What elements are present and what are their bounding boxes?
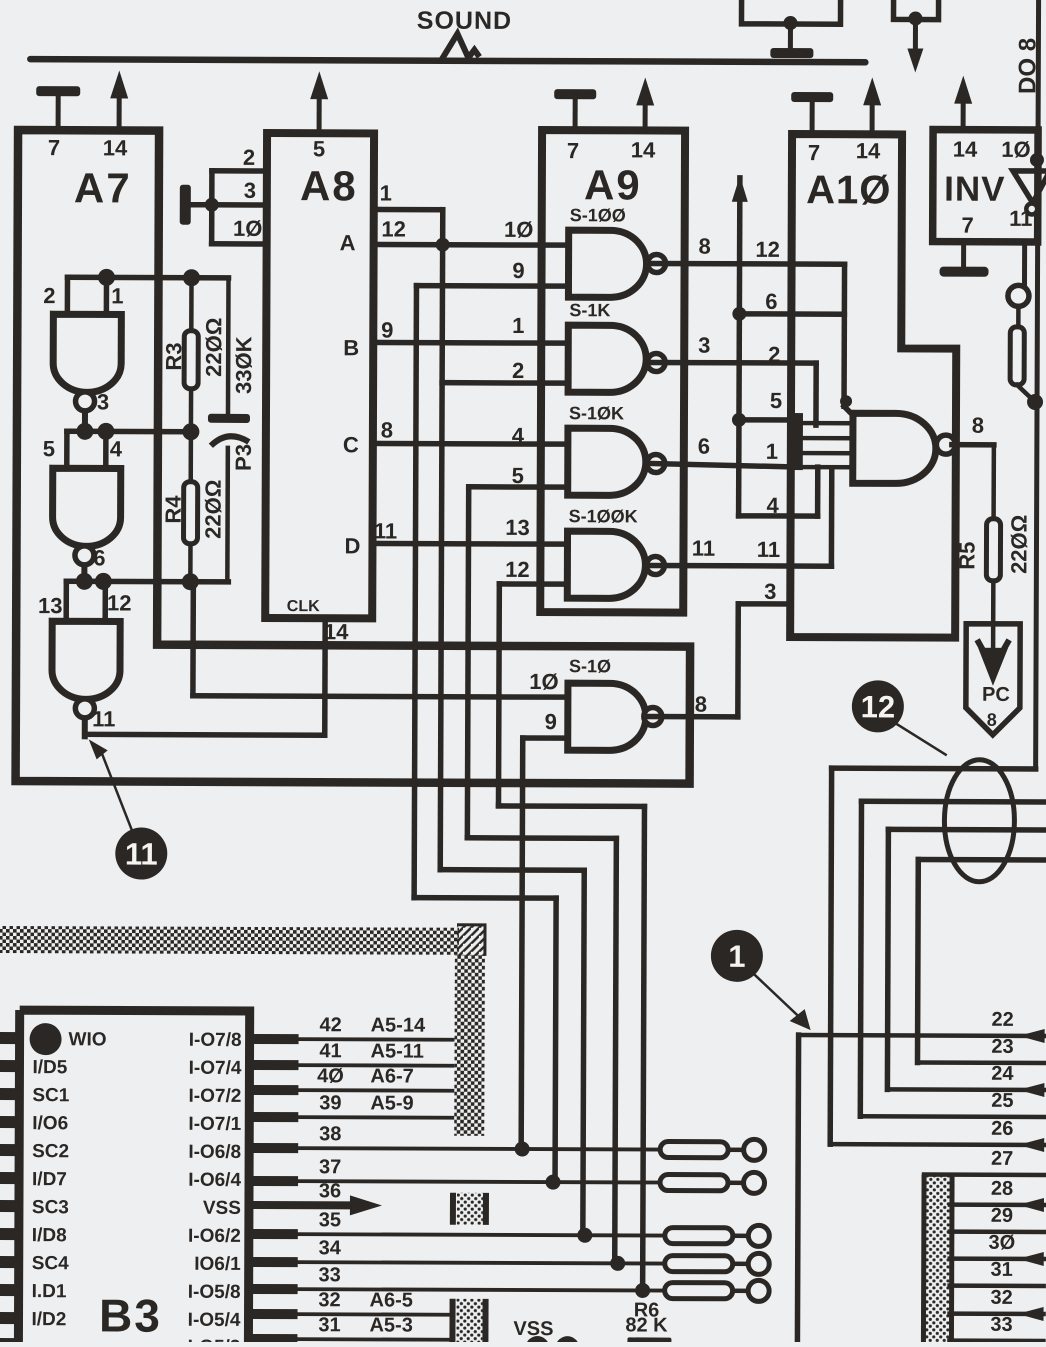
svg-text:11: 11 xyxy=(692,536,715,561)
svg-text:I-O7/1: I-O7/1 xyxy=(188,1114,241,1135)
svg-text:8: 8 xyxy=(698,234,710,259)
svg-text:9: 9 xyxy=(545,709,557,734)
svg-text:I-O5/8: I-O5/8 xyxy=(188,1282,241,1303)
svg-text:A5-9: A5-9 xyxy=(370,1092,413,1114)
svg-text:14: 14 xyxy=(103,135,128,160)
svg-text:3Ø: 3Ø xyxy=(988,1232,1015,1254)
svg-text:5: 5 xyxy=(512,463,524,488)
svg-text:VSS: VSS xyxy=(203,1198,241,1219)
svg-text:4: 4 xyxy=(512,423,525,448)
svg-text:INV: INV xyxy=(944,170,1006,209)
svg-text:CLK: CLK xyxy=(287,598,320,615)
svg-text:1Ø: 1Ø xyxy=(529,669,558,694)
svg-text:I-O7/4: I-O7/4 xyxy=(189,1058,242,1079)
svg-text:22ØΩ: 22ØΩ xyxy=(1006,515,1031,574)
svg-text:1: 1 xyxy=(111,283,123,308)
svg-text:5: 5 xyxy=(313,136,325,161)
svg-text:31: 31 xyxy=(318,1314,340,1336)
svg-text:2: 2 xyxy=(43,283,55,308)
svg-text:SC3: SC3 xyxy=(32,1197,69,1218)
svg-text:6: 6 xyxy=(698,434,710,459)
svg-text:I/D5: I/D5 xyxy=(32,1057,67,1078)
svg-text:33: 33 xyxy=(319,1264,341,1286)
svg-text:A5-11: A5-11 xyxy=(370,1040,423,1062)
svg-text:I-O6/8: I-O6/8 xyxy=(188,1142,241,1163)
svg-text:I-O7/2: I-O7/2 xyxy=(189,1086,242,1107)
svg-text:SC1: SC1 xyxy=(32,1085,69,1106)
svg-text:WIO: WIO xyxy=(69,1029,107,1050)
svg-text:8: 8 xyxy=(695,692,707,717)
svg-text:I-O6/2: I-O6/2 xyxy=(188,1226,241,1247)
svg-text:12: 12 xyxy=(755,237,780,262)
svg-text:22ØΩ: 22ØΩ xyxy=(201,480,226,539)
svg-text:3: 3 xyxy=(244,178,256,203)
svg-text:A8: A8 xyxy=(300,162,358,209)
svg-text:A5-3: A5-3 xyxy=(369,1314,412,1336)
svg-text:1: 1 xyxy=(380,180,392,205)
svg-text:I/D2: I/D2 xyxy=(31,1309,66,1330)
svg-text:12: 12 xyxy=(381,216,406,241)
svg-text:27: 27 xyxy=(991,1148,1013,1170)
svg-text:3: 3 xyxy=(97,389,109,414)
svg-text:A7: A7 xyxy=(74,164,132,211)
svg-text:S-1K: S-1K xyxy=(569,300,610,320)
svg-text:S-1ØØK: S-1ØØK xyxy=(569,506,638,526)
svg-text:I/D7: I/D7 xyxy=(32,1169,67,1190)
svg-text:R4: R4 xyxy=(161,495,186,524)
svg-text:B: B xyxy=(343,335,359,360)
svg-text:1Ø: 1Ø xyxy=(1001,137,1030,162)
svg-text:32: 32 xyxy=(990,1287,1012,1309)
svg-text:2: 2 xyxy=(512,358,524,383)
svg-text:SC2: SC2 xyxy=(32,1141,69,1162)
svg-text:3: 3 xyxy=(698,333,710,358)
svg-text:3: 3 xyxy=(764,579,776,604)
svg-text:9: 9 xyxy=(381,317,393,342)
svg-text:S-1ØK: S-1ØK xyxy=(569,403,624,423)
svg-text:12: 12 xyxy=(505,557,530,582)
svg-text:12: 12 xyxy=(861,689,896,724)
svg-text:22: 22 xyxy=(991,1009,1013,1031)
svg-text:5: 5 xyxy=(43,436,55,461)
svg-text:33ØK: 33ØK xyxy=(231,336,256,394)
svg-text:5: 5 xyxy=(770,388,782,413)
svg-text:26: 26 xyxy=(991,1118,1013,1140)
svg-text:29: 29 xyxy=(991,1205,1013,1227)
svg-text:14: 14 xyxy=(631,137,656,162)
svg-text:12: 12 xyxy=(107,590,132,615)
svg-text:34: 34 xyxy=(319,1237,342,1259)
svg-text:I-O7/8: I-O7/8 xyxy=(189,1030,242,1051)
svg-text:4: 4 xyxy=(766,493,779,518)
svg-text:4: 4 xyxy=(110,436,123,461)
svg-text:I.D1: I.D1 xyxy=(32,1281,67,1302)
svg-text:7: 7 xyxy=(962,213,974,238)
svg-text:1: 1 xyxy=(766,439,778,464)
svg-text:8: 8 xyxy=(381,417,393,442)
svg-text:11: 11 xyxy=(374,518,397,543)
svg-text:38: 38 xyxy=(319,1123,341,1145)
svg-text:A6-5: A6-5 xyxy=(370,1289,413,1311)
svg-text:13: 13 xyxy=(505,515,530,540)
svg-text:A6-7: A6-7 xyxy=(370,1065,413,1087)
svg-text:22ØΩ: 22ØΩ xyxy=(201,318,226,377)
svg-text:24: 24 xyxy=(991,1063,1014,1085)
svg-text:B3: B3 xyxy=(99,1289,162,1341)
svg-text:PC: PC xyxy=(982,684,1010,706)
svg-text:13: 13 xyxy=(38,593,63,618)
svg-text:A5-14: A5-14 xyxy=(371,1014,426,1036)
svg-text:33: 33 xyxy=(990,1314,1012,1336)
svg-text:82 K: 82 K xyxy=(625,1314,668,1336)
svg-text:I-O6/4: I-O6/4 xyxy=(188,1170,241,1191)
svg-text:42: 42 xyxy=(319,1014,341,1036)
svg-text:1Ø: 1Ø xyxy=(233,216,262,241)
svg-text:35: 35 xyxy=(319,1209,341,1231)
svg-text:4Ø: 4Ø xyxy=(317,1065,344,1087)
svg-text:9: 9 xyxy=(512,258,524,283)
svg-text:11: 11 xyxy=(1009,206,1032,231)
svg-text:1: 1 xyxy=(512,313,524,338)
svg-text:7: 7 xyxy=(567,138,579,163)
svg-text:11: 11 xyxy=(757,537,780,562)
svg-text:SC4: SC4 xyxy=(32,1253,69,1274)
svg-text:8: 8 xyxy=(972,413,984,438)
svg-text:A: A xyxy=(340,230,356,255)
svg-text:R5: R5 xyxy=(954,542,979,570)
svg-text:P3: P3 xyxy=(231,444,256,471)
svg-text:I/D8: I/D8 xyxy=(32,1225,67,1246)
svg-text:41: 41 xyxy=(319,1040,341,1062)
svg-text:39: 39 xyxy=(319,1092,341,1114)
svg-text:7: 7 xyxy=(808,140,820,165)
svg-text:36: 36 xyxy=(319,1180,341,1202)
svg-text:I/O6: I/O6 xyxy=(32,1113,68,1134)
svg-text:1: 1 xyxy=(728,939,745,974)
svg-text:I-O5/4: I-O5/4 xyxy=(188,1310,241,1331)
svg-text:11: 11 xyxy=(92,706,115,731)
svg-text:6: 6 xyxy=(765,289,777,314)
svg-text:11: 11 xyxy=(125,836,158,871)
svg-text:7: 7 xyxy=(48,135,60,160)
svg-text:14: 14 xyxy=(856,138,881,163)
svg-text:2: 2 xyxy=(243,145,255,170)
svg-text:25: 25 xyxy=(991,1090,1013,1112)
svg-text:D: D xyxy=(344,533,360,558)
svg-text:31: 31 xyxy=(991,1259,1013,1281)
svg-text:14: 14 xyxy=(953,137,978,162)
svg-text:C: C xyxy=(343,432,359,457)
svg-text:S-1Ø: S-1Ø xyxy=(569,656,611,676)
svg-text:IO6/1: IO6/1 xyxy=(194,1254,241,1275)
svg-text:I-O5/2: I-O5/2 xyxy=(188,1337,241,1342)
svg-text:37: 37 xyxy=(319,1156,341,1178)
svg-text:23: 23 xyxy=(991,1036,1013,1058)
svg-text:S-1ØØ: S-1ØØ xyxy=(570,205,626,225)
svg-text:6: 6 xyxy=(93,545,105,570)
svg-text:2: 2 xyxy=(768,342,780,367)
svg-text:R3: R3 xyxy=(161,342,186,370)
svg-text:SOUND: SOUND xyxy=(417,7,512,35)
svg-text:A9: A9 xyxy=(584,161,642,208)
svg-text:8: 8 xyxy=(987,710,997,730)
svg-text:32: 32 xyxy=(318,1289,340,1311)
svg-text:28: 28 xyxy=(991,1178,1013,1200)
svg-text:A1Ø: A1Ø xyxy=(806,168,891,212)
svg-text:1Ø: 1Ø xyxy=(504,217,533,242)
